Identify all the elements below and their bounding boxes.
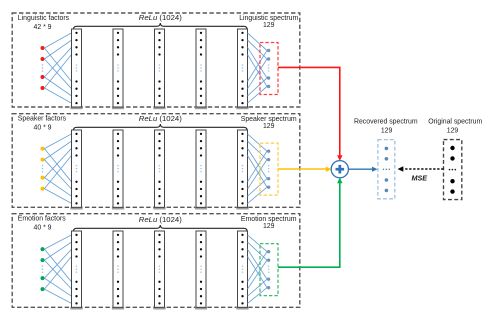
hidden layer rect 2 (Linguistic)	[112, 107, 124, 110]
brace over hidden layers	[73, 23, 247, 30]
wires: layer 5 to spectrum nodes	[248, 134, 268, 204]
svg-text:Speaker spectrum: Speaker spectrum	[241, 116, 297, 123]
wires: input to layer 1	[44, 235, 71, 304]
svg-text:129: 129	[263, 22, 275, 29]
svg-text:40 * 9: 40 * 9	[33, 225, 51, 232]
original spectrum nodes	[449, 146, 456, 194]
svg-text:129: 129	[263, 123, 275, 130]
hidden layer rect 5 (Linguistic)	[236, 107, 248, 110]
input nodes (Linguistic factors)	[41, 46, 45, 50]
hidden layer rect 3 (Emotion)	[153, 307, 165, 310]
spectrum nodes (Speaker)	[267, 149, 270, 188]
svg-text:Emotion spectrum: Emotion spectrum	[241, 216, 297, 223]
wires: layer 5 to spectrum nodes	[248, 235, 268, 304]
wire: red output (linguistic spectrum to adder)	[278, 67, 343, 160]
adder node (circle with plus)	[331, 161, 348, 178]
wires: layer 5 to spectrum nodes	[248, 33, 268, 103]
spectrum box (Emotion, colored dashed)	[260, 244, 278, 296]
hidden layer rect 2 (Speaker)	[112, 207, 124, 210]
spectrum nodes (Linguistic)	[267, 49, 270, 88]
spectrum box (Speaker, colored dashed)	[260, 143, 278, 195]
recovered spectrum box (blue dashed)	[378, 140, 395, 199]
hidden layer rect 4 (Linguistic)	[195, 107, 207, 110]
wire: blue arrow (adder to recovered spectrum)	[348, 167, 377, 172]
hidden layer rect 1 (Speaker)	[70, 207, 82, 210]
svg-text:ReLu (1024): ReLu (1024)	[139, 114, 182, 123]
module box: Speaker encoder (dashed)	[12, 114, 300, 208]
svg-text:Linguistic spectrum: Linguistic spectrum	[239, 15, 298, 22]
input ellipsis	[42, 165, 44, 167]
wire: MSE dashed arrow (original to recovered)	[398, 166, 444, 171]
svg-text:129: 129	[263, 223, 275, 230]
svg-text:40 * 9: 40 * 9	[33, 125, 51, 132]
wire: yellow output (speaker spectrum to adder)	[278, 167, 332, 172]
svg-text:Original spectrum: Original spectrum	[428, 118, 482, 125]
spectrum nodes (Emotion)	[267, 250, 270, 289]
hidden layer rect 5 (Emotion)	[236, 307, 248, 310]
svg-text:Speaker factors: Speaker factors	[18, 116, 67, 123]
svg-text:Emotion factors: Emotion factors	[18, 216, 66, 223]
svg-text:Linguistic factors: Linguistic factors	[18, 15, 70, 22]
hidden layer rect 1 (Linguistic)	[70, 107, 82, 110]
hidden layer rect 4 (Emotion)	[195, 307, 207, 310]
hidden layer rect 4 (Speaker)	[195, 207, 207, 210]
hidden layer rect 1 (Emotion)	[70, 307, 82, 310]
svg-text:ReLu (1024): ReLu (1024)	[139, 215, 182, 224]
module box: Linguistic encoder (dashed)	[12, 13, 300, 107]
brace over hidden layers	[73, 124, 247, 131]
hidden layer rect 2 (Emotion)	[112, 307, 124, 310]
brace over hidden layers	[73, 225, 247, 232]
recovered spectrum nodes	[383, 147, 390, 193]
input nodes (Speaker factors)	[41, 147, 45, 151]
wires: input to layer 1	[44, 33, 71, 103]
svg-text:MSE: MSE	[412, 173, 428, 182]
svg-text:ReLu (1024): ReLu (1024)	[139, 13, 182, 22]
svg-text:129: 129	[381, 128, 393, 135]
wire: green output (emotion spectrum to adder)	[278, 178, 343, 268]
input ellipsis	[42, 64, 44, 66]
hidden layer rect 3 (Linguistic)	[153, 107, 165, 110]
hidden layer rect 5 (Speaker)	[236, 207, 248, 210]
original spectrum box (black dashed)	[444, 140, 462, 200]
input ellipsis	[42, 265, 44, 267]
svg-text:42 * 9: 42 * 9	[33, 24, 51, 31]
input nodes (Emotion factors)	[41, 247, 45, 251]
wires: input to layer 1	[44, 134, 71, 204]
svg-text:Recovered spectrum: Recovered spectrum	[354, 118, 418, 125]
hidden layer rect 3 (Speaker)	[153, 207, 165, 210]
module box: Emotion encoder (dashed)	[12, 214, 300, 308]
svg-text:129: 129	[447, 128, 459, 135]
spectrum box (Linguistic, colored dashed)	[260, 43, 278, 95]
